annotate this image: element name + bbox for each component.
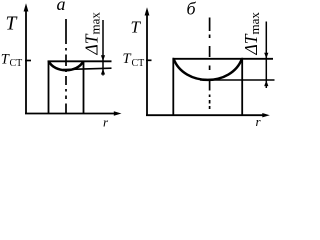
svg-text:T: T <box>131 18 142 37</box>
x-axis (left) <box>25 113 115 115</box>
dimension line dT_max (left) <box>102 20 104 76</box>
left wall (right diagram) <box>172 58 174 115</box>
temperature profile curve (left) <box>49 61 83 70</box>
svg-text:T: T <box>1 52 10 68</box>
svg-text:СТ: СТ <box>132 58 145 69</box>
x-axis (right) <box>146 114 263 116</box>
svg-text:б: б <box>187 0 197 19</box>
right wall (left diagram) <box>83 61 85 114</box>
right wall (right diagram) <box>241 58 243 115</box>
left wall (left diagram) <box>48 61 50 114</box>
lower reference line (right) <box>200 79 275 81</box>
lower reference line (left) <box>63 68 112 69</box>
dimension line dT_max (right) <box>265 22 267 89</box>
T_ct tick (left) <box>25 60 31 62</box>
dT_max rotated label (left) <box>82 12 103 56</box>
svg-text:T: T <box>123 51 132 67</box>
svg-text:T: T <box>6 14 18 35</box>
y-axis (left) <box>25 10 27 114</box>
T_ct tick (right) <box>146 59 152 61</box>
temperature profile curve (right) <box>174 59 243 80</box>
T_ct level line (left) <box>48 60 112 62</box>
svg-text:СТ: СТ <box>10 58 23 69</box>
T_ct level line (right) <box>173 58 274 60</box>
y-axis (right) <box>146 14 148 115</box>
centerline dash-dot (right) <box>209 18 211 110</box>
dT_max rotated label (right) <box>241 12 262 56</box>
centerline dash-dot (left) <box>65 19 67 114</box>
svg-text:а: а <box>57 0 66 14</box>
